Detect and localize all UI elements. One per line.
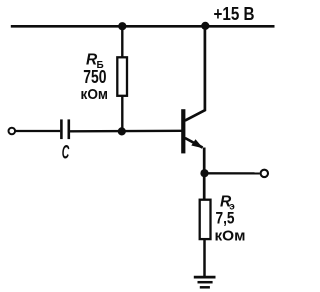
input terminal xyxy=(9,128,16,135)
power rail +15V wire xyxy=(11,25,275,28)
wire: RЭ bottom to ground xyxy=(203,239,206,277)
svg-text:7,5: 7,5 xyxy=(216,208,235,227)
wire: rail down to RБ top xyxy=(121,26,123,58)
wire: capacitor to base xyxy=(70,130,182,133)
capacitor C xyxy=(61,119,68,139)
wire: input terminal to capacitor xyxy=(15,130,60,132)
resistor RБ xyxy=(117,57,127,96)
node: rail to collector junction xyxy=(201,22,209,30)
svg-text:750: 750 xyxy=(83,67,106,87)
resistor RЭ xyxy=(200,200,211,239)
label RЭ xyxy=(220,194,235,213)
label RБ xyxy=(86,51,104,71)
svg-text:+15 В: +15 В xyxy=(214,3,255,24)
node: emitter junction xyxy=(200,169,208,177)
svg-text:C: C xyxy=(62,143,70,164)
svg-text:кОм: кОм xyxy=(81,86,109,103)
transistor (NPN) xyxy=(181,26,205,200)
wire: RБ bottom down to base node xyxy=(121,96,123,132)
output terminal xyxy=(261,170,268,177)
node: base junction xyxy=(118,127,126,135)
wire: emitter node to output terminal xyxy=(205,172,260,174)
svg-text:кОм: кОм xyxy=(215,227,246,244)
node: rail to RБ junction xyxy=(118,22,126,30)
ground xyxy=(194,277,216,287)
